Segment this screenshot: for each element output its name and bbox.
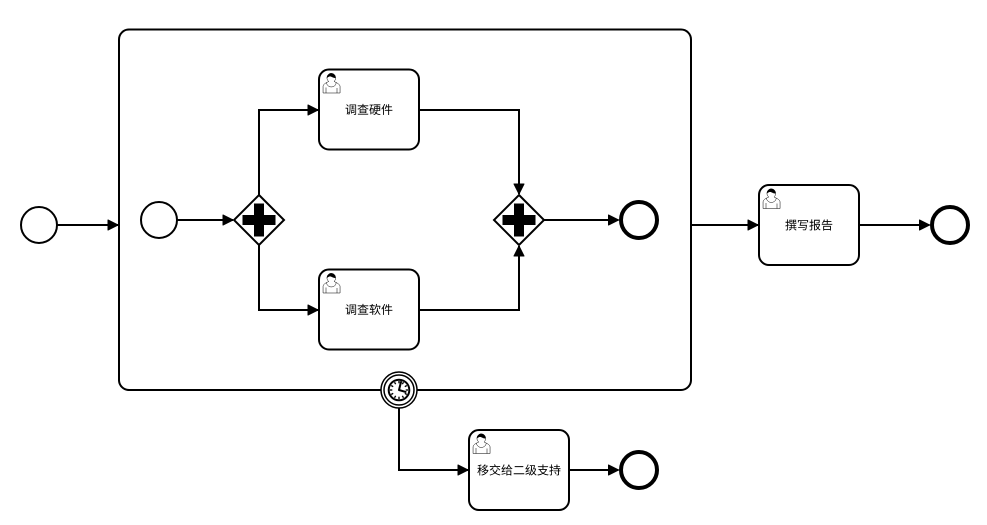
user task T1 调查硬件 — [319, 70, 419, 150]
wire S1 to subprocess — [57, 224, 118, 226]
parallel gateway G2 (join) — [494, 195, 544, 245]
wire T3 to end E3 — [859, 224, 930, 226]
wire G2 to end E2 — [544, 219, 619, 221]
subprocess (expanded) — [119, 30, 691, 391]
wire S2 to gateway G1 — [177, 219, 233, 221]
user task T4 移交给二级支持 — [469, 430, 569, 510]
wire T1 to gateway G2 — [419, 110, 519, 194]
wire subprocess to task T3 — [691, 224, 758, 226]
timer boundary event B1 — [381, 372, 417, 408]
end event E3 (outer) — [932, 207, 968, 243]
label 移交给二级支持 — [477, 464, 560, 475]
start event S1 (outer) — [21, 207, 57, 243]
wire G1 to task T1 — [259, 110, 318, 195]
label 调查软件 — [346, 304, 393, 315]
start event S2 (inner) — [141, 202, 177, 238]
wire B1 to task T4 — [399, 409, 468, 471]
wire T2 to gateway G2 — [419, 246, 519, 310]
parallel gateway G1 (split) — [234, 195, 284, 245]
user task T3 撰写报告 — [759, 185, 859, 265]
end event E2 (inner) — [621, 202, 657, 238]
user task T2 调查软件 — [319, 270, 419, 350]
wire G1 to task T2 — [259, 245, 318, 310]
wire T4 to end E4 — [569, 469, 619, 471]
end event E4 (bottom) — [621, 452, 657, 488]
label 调查硬件 — [346, 104, 393, 115]
label 撰写报告 — [785, 219, 832, 230]
